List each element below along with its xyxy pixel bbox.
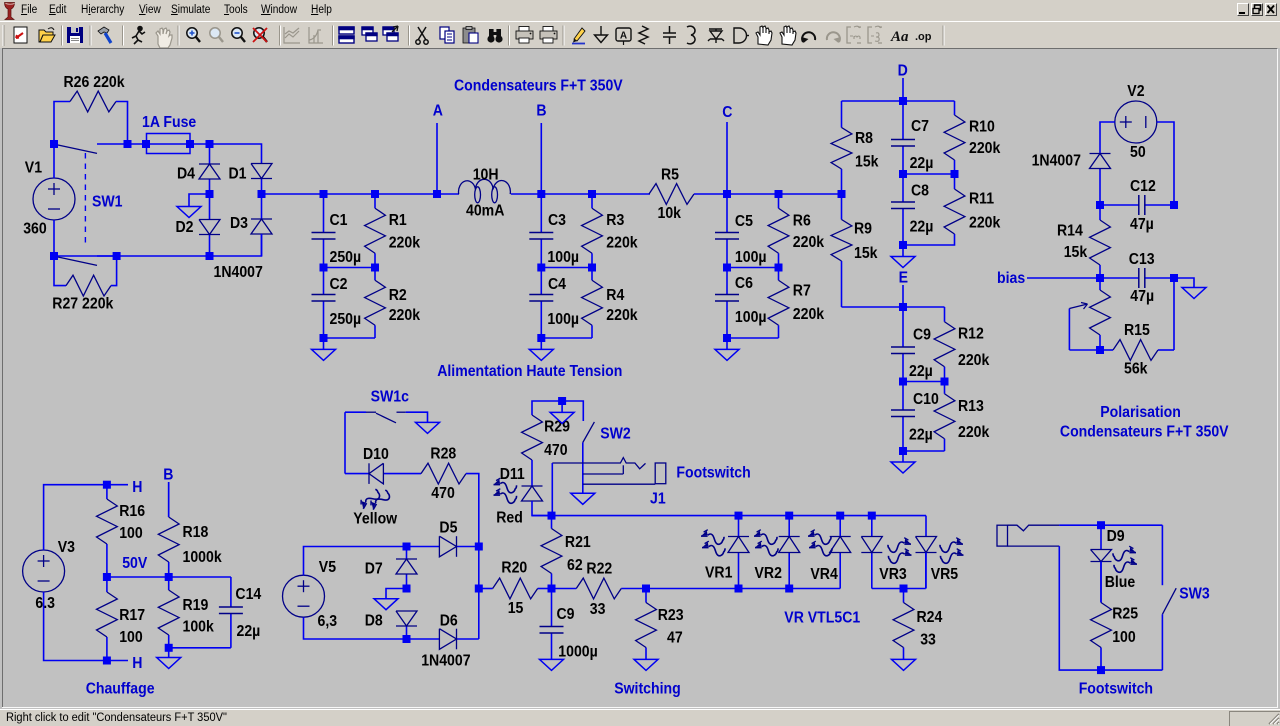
junction [537,334,545,342]
svg-text:C6: C6 [735,275,753,292]
svg-text:15: 15 [508,600,524,617]
potentiometer R15 [1069,278,1174,378]
svg-text:R1: R1 [389,212,407,229]
svg-text:R6: R6 [793,213,811,230]
junction [206,252,214,260]
svg-text:C7: C7 [911,118,929,135]
svg-text:R21: R21 [565,534,591,551]
junction [320,264,328,272]
resistor R21 [541,516,591,589]
switch SW2 [562,401,631,443]
svg-text:360: 360 [23,221,47,238]
svg-text:10H: 10H [473,167,499,184]
resistor R23 [636,589,684,660]
svg-text:D: D [898,63,908,80]
LED D9 [1091,525,1112,602]
voltage source V5 [283,575,325,617]
wire [304,617,407,639]
svg-text:R3: R3 [606,212,624,229]
ground [550,401,574,423]
junction [537,264,545,272]
resistor R5 [649,167,694,222]
svg-text:40mA: 40mA [466,203,505,220]
svg-text:47µ: 47µ [1130,216,1154,233]
wire B+ bus [262,193,460,195]
svg-text:B: B [536,103,546,120]
ground [416,422,440,433]
wire [324,267,376,269]
node E [899,270,909,307]
wire 50V row [107,576,231,578]
junction [124,140,132,148]
svg-text:R15: R15 [1124,322,1150,339]
fuse F1 1A [128,114,197,153]
ground [529,338,553,360]
node B [163,467,173,517]
light arrows VR2 [754,530,778,556]
svg-text:VR2: VR2 [755,565,782,582]
svg-text:100µ: 100µ [547,311,579,328]
svg-text:R10: R10 [969,119,995,136]
svg-text:220k: 220k [389,307,421,324]
capacitor C5 [715,194,767,268]
svg-text:R25: R25 [1112,606,1138,623]
junction [836,512,844,520]
junction [548,512,556,520]
svg-text:220k: 220k [606,235,638,252]
junction [735,585,743,593]
svg-text:D9: D9 [1107,528,1125,545]
switch SW1 [58,144,128,265]
optocoupler LED VR4 [830,516,851,589]
svg-text:33: 33 [590,601,606,618]
svg-text:D4: D4 [177,166,196,183]
svg-text:R27 220k: R27 220k [52,296,114,313]
ground [891,451,915,473]
svg-text:50: 50 [1130,144,1146,161]
inductor L1 [459,167,511,220]
svg-text:VR3: VR3 [879,566,906,583]
diode D7 [396,547,417,589]
junction [186,140,194,148]
junction [475,585,483,593]
svg-text:56k: 56k [1124,361,1148,378]
resistor R27 [54,256,117,296]
LED D10 light arrows [358,486,392,514]
svg-text:100: 100 [119,629,143,646]
junction [320,190,328,198]
svg-text:Aa: Aa [890,29,909,45]
svg-text:100µ: 100µ [735,309,767,326]
resistor R26 [54,91,128,144]
junction [433,190,441,198]
resistor R20 [479,560,552,617]
wire [925,553,927,589]
junction [50,140,58,148]
light arrows VR4 [808,530,832,556]
wire [541,337,592,339]
svg-text:1000k: 1000k [183,549,223,566]
light arrows VR1 [701,530,725,556]
wire [551,463,553,516]
junction [838,190,846,198]
svg-text:C2: C2 [330,276,348,293]
svg-text:470: 470 [544,442,568,459]
resistor R1 [365,194,421,268]
wire [903,173,955,175]
svg-text:100µ: 100µ [735,249,767,266]
svg-text:Chauffage: Chauffage [86,681,155,698]
ground [634,659,658,670]
junction [588,264,596,272]
switch SW1c [345,389,428,423]
wire [53,144,55,178]
wire [727,337,779,339]
node D [898,63,908,101]
junction [1096,201,1104,209]
capacitor C10 [891,382,939,452]
svg-text:C: C [722,104,732,121]
optocoupler LED VR2 [779,516,800,589]
svg-text:100: 100 [119,525,143,542]
voltage source V3 [23,550,65,592]
svg-text:SW1: SW1 [92,194,123,211]
svg-text:Polarisation: Polarisation [1100,404,1181,421]
wire lower LED bus [646,588,840,590]
resistor R19 [158,577,214,648]
junction [723,264,731,272]
junction [785,585,793,593]
svg-text:47: 47 [667,630,683,647]
wire [169,647,231,649]
wire [842,306,945,308]
svg-text:100µ: 100µ [547,249,579,266]
diode D3 [251,194,272,256]
svg-text:Condensateurs F+T 350V: Condensateurs F+T 350V [454,78,623,95]
svg-text:D5: D5 [439,520,457,537]
svg-text:VR1: VR1 [705,565,732,582]
svg-text:R17: R17 [119,607,145,624]
svg-text:SW3: SW3 [1179,586,1210,603]
svg-text:B: B [163,467,173,484]
junction [899,97,907,105]
LED D11 [522,486,543,501]
svg-text:D10: D10 [363,446,389,463]
junction [103,657,111,665]
junction [113,252,121,260]
junction [1170,274,1178,282]
resistor R18 [158,482,222,577]
capacitor C9 [540,589,598,661]
resistor R12 [934,307,990,382]
junction [206,190,214,198]
junction [403,635,411,643]
node H [107,655,142,672]
junction [537,190,545,198]
svg-text:50V: 50V [122,555,147,572]
ground [571,493,595,504]
svg-text:250µ: 250µ [330,249,362,266]
svg-text:R28: R28 [430,446,456,463]
node A [433,103,443,194]
svg-text:470: 470 [431,485,455,502]
junction [723,334,731,342]
wire [727,267,779,269]
svg-text:C5: C5 [735,213,753,230]
svg-text:D6: D6 [440,613,458,630]
svg-text:R24: R24 [917,609,944,626]
junction [165,573,173,581]
junction [868,512,876,520]
svg-text:15k: 15k [854,245,878,262]
svg-text:C12: C12 [1130,178,1156,195]
wire [44,592,107,661]
svg-text:VR4: VR4 [810,566,838,583]
wire [1100,122,1115,154]
node C [722,104,732,194]
junction [899,447,907,455]
wire [386,589,407,599]
svg-text:V5: V5 [319,559,336,576]
junction [1097,666,1105,674]
svg-text:R12: R12 [958,326,984,343]
resistor R16 [97,485,146,577]
optocoupler LED VR5 [916,537,937,589]
resistor R8 [831,101,879,194]
wire [344,412,346,473]
node H [107,479,142,496]
wire [694,193,842,195]
svg-text:Condensateurs F+T 350V: Condensateurs F+T 350V [1060,424,1229,441]
svg-text:D11: D11 [500,466,525,483]
svg-text:C8: C8 [911,183,929,200]
ground [312,338,336,360]
svg-text:R9: R9 [854,221,872,238]
wire [190,143,210,145]
junction [403,543,411,551]
wire [1157,122,1174,205]
svg-text:250µ: 250µ [330,311,362,328]
svg-text:220k: 220k [793,234,825,251]
svg-text:C4: C4 [548,276,567,293]
resistor R29 [522,401,570,486]
node bias [997,270,1100,287]
svg-text:100k: 100k [183,619,215,636]
wire [1059,524,1162,526]
ground [157,648,181,669]
ground [892,659,916,670]
svg-text:R20: R20 [501,560,527,577]
svg-text:bias: bias [997,270,1025,287]
svg-text:15k: 15k [855,154,879,171]
capacitor C13 [1100,251,1174,305]
svg-text:VR VTL5C1: VR VTL5C1 [784,610,860,627]
svg-text:220k: 220k [606,307,638,324]
switch SW3 [1162,525,1209,670]
svg-text:C1: C1 [330,212,348,229]
capacitor C3 [529,194,579,268]
junction [403,585,411,593]
svg-text:1N4007: 1N4007 [214,264,263,281]
junction [165,644,173,652]
junction [371,190,379,198]
wire [903,381,945,383]
junction [1096,274,1104,282]
svg-text:Red: Red [496,510,523,527]
capacitor C6 [715,268,767,339]
svg-text:C14: C14 [235,586,262,603]
svg-text:D3: D3 [230,215,248,232]
junction [371,264,379,272]
wire [1174,278,1194,288]
ground [715,338,739,360]
svg-text:E: E [899,270,909,287]
svg-text:22µ: 22µ [237,623,261,640]
svg-text:R26 220k: R26 220k [64,74,126,91]
resistor R4 [582,268,639,339]
svg-text:A: A [433,103,443,120]
wire [478,547,480,640]
svg-text:R14: R14 [1057,223,1084,240]
svg-text:Footswitch: Footswitch [1079,681,1153,698]
resistor R3 [582,194,639,268]
junction [723,190,731,198]
junction [1097,521,1105,529]
LED D10 [345,463,421,484]
svg-text:D2: D2 [176,219,194,236]
capacitor C8 [891,174,933,245]
svg-text:R2: R2 [389,287,407,304]
resistor R7 [768,268,825,339]
svg-text:R4: R4 [606,287,625,304]
wire [541,267,592,269]
junction [775,264,783,272]
diode D1 [251,164,272,195]
svg-text:220k: 220k [969,215,1001,232]
svg-text:22µ: 22µ [910,155,934,172]
capacitor C2 [312,268,362,339]
junction [320,334,328,342]
svg-text:H: H [132,479,142,496]
optocoupler LED VR3 [861,516,882,589]
wire [466,474,479,547]
junction [588,190,596,198]
node B [536,103,546,194]
wire [304,547,407,576]
svg-text:22µ: 22µ [910,219,934,236]
wire [406,412,428,422]
wire [324,337,376,339]
junction [1170,201,1178,209]
svg-text:V1: V1 [25,160,42,177]
wire [210,144,262,164]
diode D2 [199,194,220,256]
svg-text:C10: C10 [913,391,939,408]
capacitor C14 [219,577,262,648]
junction [775,190,783,198]
svg-text:C3: C3 [548,212,566,229]
svg-text:33: 33 [920,632,936,649]
capacitor C4 [529,268,579,339]
wire [903,450,945,452]
svg-text:1000µ: 1000µ [558,644,597,661]
junction [258,190,266,198]
svg-text:47µ: 47µ [1130,288,1154,305]
junction [50,252,58,260]
svg-text:Alimentation Haute Tension: Alimentation Haute Tension [437,363,622,380]
resistor R22 [552,561,647,618]
svg-text:220k: 220k [389,235,421,252]
resistor R2 [365,268,421,339]
resistor R6 [768,194,825,268]
junction [785,512,793,520]
svg-text:A: A [620,31,627,42]
connector jack footswitch [997,525,1059,546]
svg-text:220k: 220k [793,306,825,323]
wire [44,485,107,550]
junction [1096,346,1104,354]
junction [142,140,150,148]
svg-text:R19: R19 [183,597,209,614]
svg-text:R8: R8 [855,130,873,147]
resistor R24 [893,589,943,660]
capacitor C12 [1100,178,1174,233]
resistor R13 [934,382,990,452]
resistor R10 [944,101,1001,174]
junction [951,170,959,178]
light arrows VR5 [940,538,964,564]
junction [899,378,907,386]
junction [941,378,949,386]
svg-text:Blue: Blue [1105,574,1136,591]
wire LED bus [532,515,926,517]
junction [206,140,214,148]
wire [532,401,562,415]
junction [900,585,908,593]
svg-text:H: H [132,655,142,672]
diode D8 [396,611,417,639]
LED D9 light arrows [1113,546,1137,572]
svg-text:62: 62 [567,557,583,574]
diode D5 [407,536,479,557]
voltage source V2 [1115,83,1157,161]
svg-text:220k: 220k [958,424,990,441]
voltage source V1 [33,178,75,220]
svg-text:1A Fuse: 1A Fuse [142,114,196,131]
svg-text:Yellow: Yellow [353,511,397,528]
svg-text:R22: R22 [586,561,612,578]
ground [891,245,915,268]
svg-text:R5: R5 [661,167,679,184]
svg-text:R29: R29 [544,419,570,436]
svg-text:100: 100 [1112,629,1136,646]
wire [925,516,927,537]
svg-text:R13: R13 [958,398,984,415]
svg-text:R16: R16 [119,503,145,520]
svg-text:R11: R11 [969,191,994,208]
junction [103,481,111,489]
svg-text:R7: R7 [793,283,811,300]
svg-text:R23: R23 [658,607,684,624]
wire [872,588,926,590]
ground [374,589,407,610]
wire [532,501,552,516]
junction [103,573,111,581]
junction [558,397,566,405]
resistor R14 [1057,205,1110,278]
svg-text:R18: R18 [183,524,209,541]
svg-text:SW2: SW2 [600,426,631,443]
